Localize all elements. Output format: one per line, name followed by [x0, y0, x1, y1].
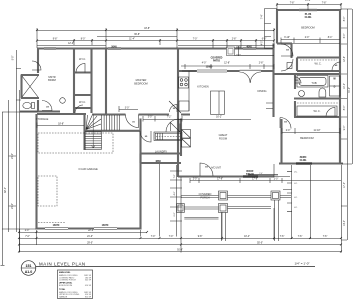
svg-text:9'-8": 9'-8" [13, 56, 15, 61]
svg-text:2/8: 2/8 [46, 107, 49, 109]
svg-text:MAIN LEVEL: MAIN LEVEL [59, 271, 71, 274]
svg-text:CLNG: CLNG [305, 16, 312, 19]
svg-text:7'-0": 7'-0" [259, 173, 263, 175]
svg-text:7'-0": 7'-0" [151, 236, 156, 238]
svg-text:A1.0: A1.0 [25, 270, 33, 274]
svg-text:1/4" = 1'-0": 1/4" = 1'-0" [294, 261, 309, 265]
svg-text:16070: 16070 [53, 224, 60, 227]
svg-text:91'-8": 91'-8" [177, 249, 183, 251]
svg-text:7'-6": 7'-6" [298, 236, 303, 238]
svg-text:7'-2": 7'-2" [167, 117, 172, 119]
svg-text:6'-0": 6'-0" [344, 34, 346, 39]
svg-text:9'-8": 9'-8" [198, 236, 203, 238]
svg-text:42'-0": 42'-0" [5, 187, 7, 193]
svg-text:12080: 12080 [206, 66, 213, 69]
svg-text:W.I.C.: W.I.C. [79, 100, 86, 104]
svg-text:2'-0": 2'-0" [274, 178, 279, 180]
svg-text:4'-0": 4'-0" [262, 41, 264, 46]
svg-text:2'-0": 2'-0" [25, 230, 30, 232]
svg-text:8'-0": 8'-0" [81, 38, 86, 40]
svg-text:7'-6": 7'-6" [280, 236, 285, 238]
svg-text:6/8: 6/8 [286, 50, 289, 52]
svg-text:BEDROOM: BEDROOM [134, 82, 147, 86]
svg-text:10'-4": 10'-4" [244, 236, 250, 238]
svg-text:U.C.: U.C. [294, 183, 298, 185]
svg-text:3'-0": 3'-0" [148, 117, 153, 119]
svg-text:9'-0": 9'-0" [344, 126, 346, 131]
svg-text:2'-8": 2'-8" [232, 38, 237, 40]
svg-text:17'-6": 17'-6" [217, 178, 223, 180]
svg-text:7'-8": 7'-8" [322, 2, 327, 4]
svg-text:LAUNDRY: LAUNDRY [155, 150, 168, 154]
svg-text:MASTER: MASTER [136, 78, 147, 82]
svg-text:2'-0": 2'-0" [286, 130, 291, 132]
svg-text:2/8: 2/8 [173, 108, 176, 110]
svg-text:D: D [334, 86, 336, 89]
svg-text:STORAGE: STORAGE [36, 117, 49, 121]
svg-text:KITCHEN: KITCHEN [197, 84, 209, 88]
svg-text:TUB: TUB [311, 81, 316, 85]
svg-text:U.C.: U.C. [294, 207, 298, 209]
svg-text:TOTAL: TOTAL [59, 288, 66, 291]
svg-text:CLNG: CLNG [300, 159, 307, 162]
svg-text:812 SF: 812 SF [85, 296, 92, 298]
svg-text:22'-0": 22'-0" [88, 230, 94, 232]
svg-text:4/8: 4/8 [335, 64, 338, 67]
svg-text:7'-0": 7'-0" [25, 236, 30, 238]
svg-text:39'-8": 39'-8" [134, 34, 140, 36]
svg-text:BONUS ROOM: BONUS ROOM [59, 285, 73, 287]
svg-text:8'-0": 8'-0" [344, 106, 346, 111]
svg-text:414 SF: 414 SF [85, 285, 92, 287]
svg-text:4868: 4868 [155, 160, 161, 163]
svg-text:5040: 5040 [111, 45, 117, 48]
svg-text:2/6: 2/6 [145, 136, 148, 138]
svg-text:2/8: 2/8 [295, 80, 298, 82]
svg-text:12'-8": 12'-8" [224, 63, 230, 65]
svg-text:DINING: DINING [257, 89, 266, 93]
svg-text:342 SF: 342 SF [85, 280, 92, 282]
svg-text:6/8: 6/8 [205, 167, 208, 169]
svg-text:16070: 16070 [102, 224, 109, 227]
svg-text:18'-8": 18'-8" [58, 124, 64, 126]
svg-text:21'-0": 21'-0" [87, 236, 93, 238]
svg-text:14'-0": 14'-0" [344, 220, 346, 226]
svg-text:7'-8": 7'-8" [290, 2, 295, 4]
svg-text:8'-4": 8'-4" [328, 37, 333, 39]
svg-text:12'-0": 12'-0" [68, 43, 74, 45]
svg-text:W.I.C.: W.I.C. [314, 62, 321, 66]
svg-text:COVERED PORCH: COVERED PORCH [59, 280, 76, 282]
svg-text:7'-0": 7'-0" [169, 236, 174, 238]
svg-text:55'-0": 55'-0" [257, 242, 263, 244]
svg-text:151: 151 [26, 264, 32, 268]
svg-text:GREAT: GREAT [219, 133, 228, 137]
svg-text:11'-10": 11'-10" [314, 130, 321, 132]
svg-text:9'-8": 9'-8" [53, 38, 58, 40]
svg-text:A/C UNIT: A/C UNIT [211, 167, 221, 170]
svg-text:17'-6": 17'-6" [252, 178, 258, 180]
svg-text:4'-0": 4'-0" [202, 63, 207, 65]
svg-text:BDRM: BDRM [48, 78, 56, 82]
svg-text:43'-8": 43'-8" [144, 28, 150, 30]
svg-text:BEDROOM: BEDROOM [300, 136, 313, 140]
svg-text:W.I.C.: W.I.C. [79, 57, 86, 61]
svg-text:31'-0": 31'-0" [349, 87, 351, 93]
svg-text:COVERED: COVERED [199, 192, 212, 196]
svg-text:10'-0": 10'-0" [344, 83, 346, 89]
svg-text:2'-0": 2'-0" [193, 178, 198, 180]
svg-text:BEDROOM: BEDROOM [301, 26, 314, 30]
svg-text:PATIO: PATIO [213, 60, 220, 63]
svg-text:8'-0": 8'-0" [344, 17, 346, 22]
svg-text:3 CAR GARAGE: 3 CAR GARAGE [78, 167, 98, 171]
svg-text:UPPER LEVEL: UPPER LEVEL [59, 282, 73, 284]
svg-text:MAIN LEVEL PLAN: MAIN LEVEL PLAN [39, 262, 86, 267]
svg-text:U.C.: U.C. [294, 197, 298, 199]
svg-text:7'-4": 7'-4" [262, 15, 264, 20]
svg-text:7'-6": 7'-6" [323, 236, 328, 238]
svg-text:3'-10": 3'-10" [284, 37, 290, 39]
svg-text:3/0: 3/0 [132, 122, 135, 124]
svg-text:29'-0": 29'-0" [87, 242, 93, 244]
svg-text:4'-0": 4'-0" [174, 191, 176, 195]
svg-text:15'-4": 15'-4" [305, 0, 311, 2]
svg-text:21'-0": 21'-0" [12, 203, 14, 209]
svg-text:2'-8": 2'-8" [259, 63, 264, 65]
svg-text:6'-0": 6'-0" [174, 212, 176, 216]
svg-text:U.C.: U.C. [294, 172, 298, 174]
svg-text:6'-8": 6'-8" [262, 38, 267, 40]
svg-text:17'-0": 17'-0" [344, 182, 346, 188]
svg-text:12'-4": 12'-4" [344, 56, 346, 62]
svg-text:PORCH: PORCH [200, 196, 209, 200]
svg-text:W.I.C.: W.I.C. [313, 109, 320, 113]
svg-text:16'-2": 16'-2" [216, 117, 222, 119]
svg-text:GARAGE: GARAGE [59, 295, 68, 298]
svg-text:7'-8": 7'-8" [174, 174, 176, 178]
svg-text:21'-0": 21'-0" [12, 153, 14, 159]
svg-text:4040: 4040 [246, 45, 252, 48]
svg-text:5/8: 5/8 [284, 122, 287, 124]
svg-text:ROOM: ROOM [219, 137, 227, 141]
svg-text:11'-4": 11'-4" [129, 38, 135, 40]
svg-text:3'-0": 3'-0" [125, 107, 130, 109]
svg-text:7'-0": 7'-0" [193, 38, 198, 40]
svg-text:STACK: STACK [246, 173, 254, 176]
svg-text:2'-0": 2'-0" [305, 37, 310, 39]
